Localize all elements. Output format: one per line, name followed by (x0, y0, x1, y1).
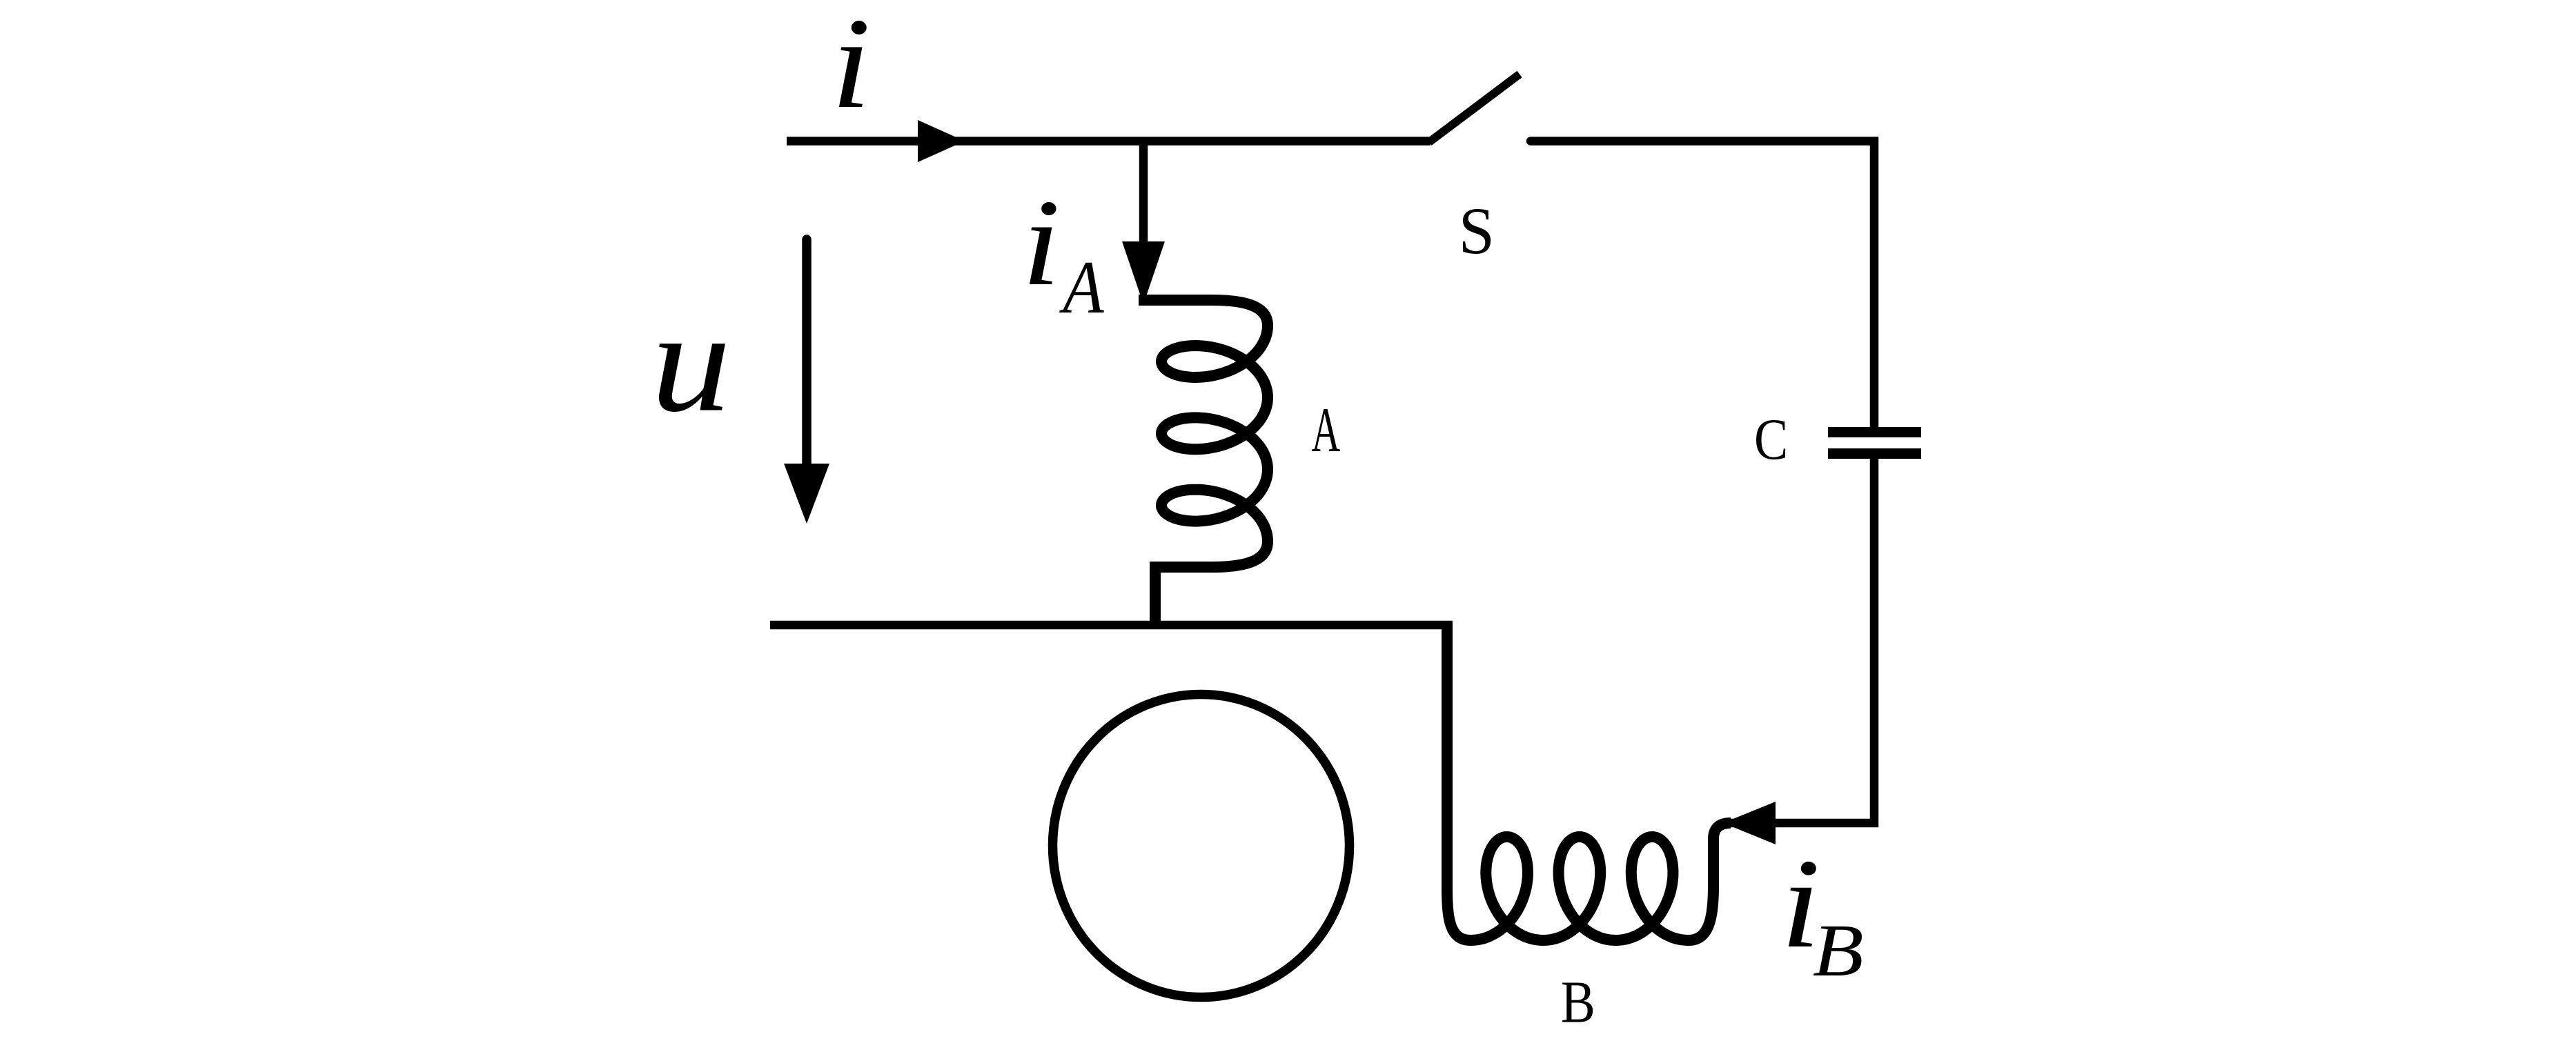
capacitor C top plate (1828, 427, 1921, 437)
svg-text:C: C (1754, 408, 1788, 473)
arrowhead current iA (1122, 241, 1165, 304)
svg-text:A: A (1059, 246, 1105, 329)
wire junction drop for iA (1139, 141, 1148, 245)
motor circle (1053, 695, 1350, 998)
svg-text:B: B (1813, 909, 1864, 992)
svg-text:S: S (1459, 194, 1495, 268)
svg-text:i: i (1022, 175, 1061, 312)
arrowhead current i (918, 120, 965, 162)
inductor A (main winding) (1139, 300, 1268, 625)
svg-text:B: B (1561, 969, 1595, 1035)
inductor B (start winding) with lead from bottom wire (1447, 625, 1731, 940)
wire right vertical below capacitor, corner, bottom-right horizontal (1728, 453, 1874, 823)
voltage u arrowhead (784, 464, 829, 524)
svg-text:i: i (831, 0, 871, 135)
switch S lever (1429, 75, 1520, 143)
wire top-left horizontal (787, 137, 1430, 146)
wire top-right horizontal and right vertical down to capacitor (1531, 141, 1874, 433)
arrowhead current iB (1723, 802, 1776, 844)
capacitor C bottom plate (1828, 448, 1921, 459)
svg-text:u: u (651, 281, 731, 442)
wire bottom horizontal (770, 621, 1453, 630)
voltage u reference arrow line (802, 239, 812, 468)
svg-text:A: A (1311, 394, 1340, 465)
